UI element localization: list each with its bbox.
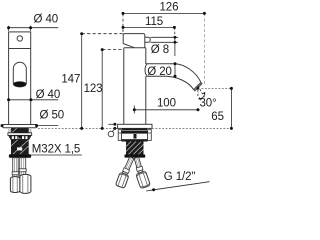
- svg-text:Ø 40: Ø 40: [36, 89, 61, 101]
- svg-text:65: 65: [211, 111, 224, 123]
- svg-text:100: 100: [157, 97, 176, 109]
- svg-text:G 1/2": G 1/2": [164, 171, 196, 183]
- svg-text:123: 123: [84, 83, 103, 95]
- svg-text:Ø 50: Ø 50: [40, 110, 65, 122]
- svg-text:115: 115: [145, 16, 163, 28]
- svg-text:Ø 40: Ø 40: [34, 14, 59, 26]
- svg-text:Ø 8: Ø 8: [151, 44, 169, 56]
- svg-text:Ø 20: Ø 20: [147, 66, 172, 78]
- svg-text:126: 126: [160, 2, 179, 14]
- svg-text:30°: 30°: [200, 97, 217, 109]
- svg-text:M32X 1,5: M32X 1,5: [32, 144, 80, 156]
- svg-text:147: 147: [61, 73, 80, 85]
